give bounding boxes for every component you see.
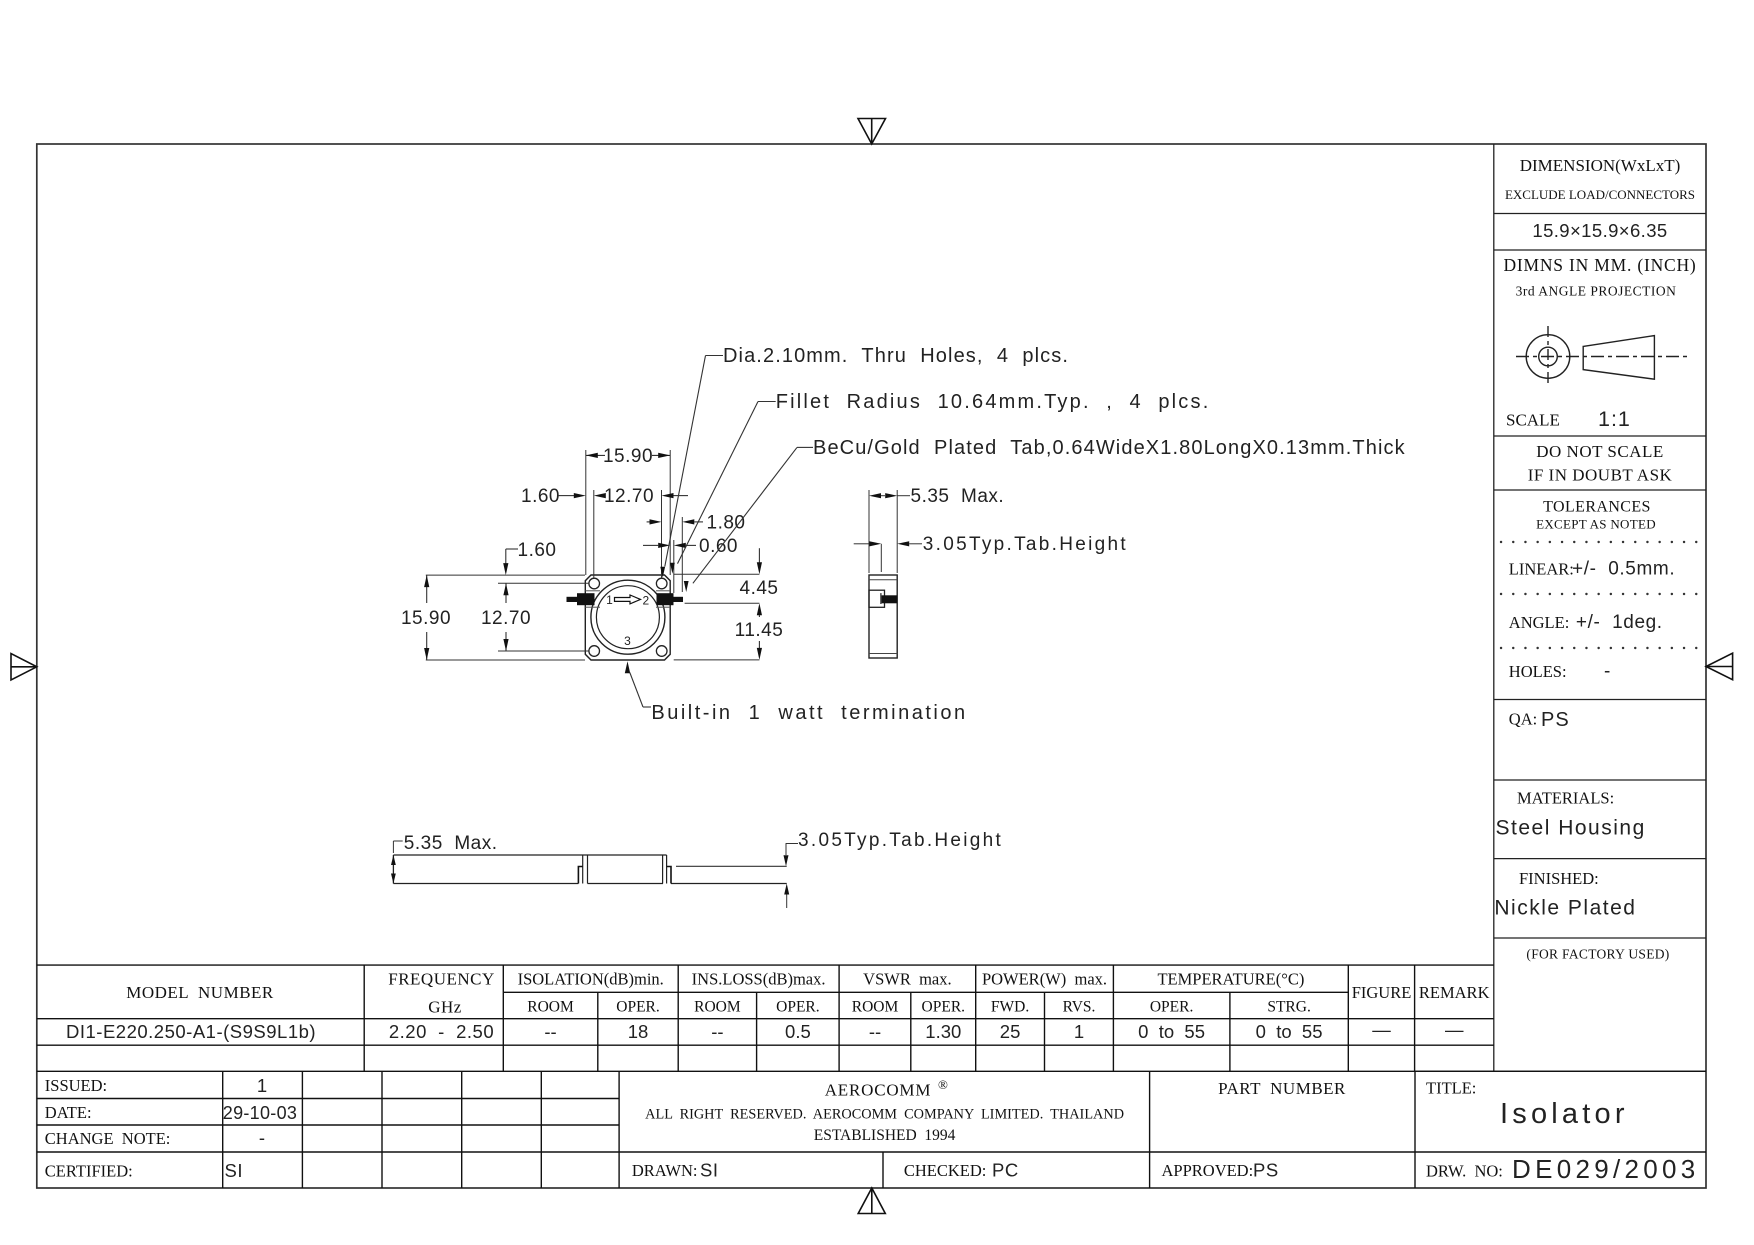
isolator body front view (chamfered square) bbox=[585, 575, 670, 660]
svg-text:DIMENSION(WxLxT): DIMENSION(WxLxT) bbox=[1520, 156, 1681, 175]
right centering mark bbox=[1706, 653, 1733, 680]
top centering mark bbox=[858, 119, 886, 145]
svg-text:12.70: 12.70 bbox=[604, 486, 654, 507]
leader: fillet radius note bbox=[758, 401, 776, 403]
svg-text:--: -- bbox=[711, 1021, 723, 1042]
svg-text:29-10-03: 29-10-03 bbox=[223, 1103, 297, 1123]
svg-text:1: 1 bbox=[606, 593, 613, 607]
dimension 0.60 (tab offset) bbox=[643, 544, 658, 546]
port flow arrow 1 to 2 bbox=[615, 595, 641, 604]
svg-text:3: 3 bbox=[624, 634, 631, 648]
svg-text:2.20 - 2.50: 2.20 - 2.50 bbox=[389, 1021, 494, 1042]
svg-text:®: ® bbox=[938, 1077, 948, 1092]
svg-text:REMARK: REMARK bbox=[1419, 983, 1490, 1002]
svg-text:DATE:: DATE: bbox=[45, 1103, 92, 1122]
svg-text:CHECKED:: CHECKED: bbox=[904, 1161, 987, 1180]
svg-text:RVS.: RVS. bbox=[1063, 999, 1096, 1016]
svg-text:ISOLATION(dB)min.: ISOLATION(dB)min. bbox=[518, 970, 664, 989]
bottom view tab line right bbox=[676, 865, 787, 867]
svg-text:MATERIALS:: MATERIALS: bbox=[1517, 789, 1614, 808]
svg-text:ROOM: ROOM bbox=[852, 999, 899, 1016]
svg-text:BeCu/Gold Plated Tab,0.64Wid: BeCu/Gold Plated Tab,0.64WideX1.80LongX0… bbox=[813, 437, 1406, 459]
svg-text:PS: PS bbox=[1253, 1160, 1279, 1181]
svg-text:1.60: 1.60 bbox=[518, 540, 557, 561]
side view body bbox=[869, 575, 897, 658]
left BeCu tab (black) bbox=[577, 593, 595, 605]
svg-text:FWD.: FWD. bbox=[991, 999, 1029, 1016]
svg-text:TITLE:: TITLE: bbox=[1426, 1079, 1476, 1098]
svg-text:--: -- bbox=[869, 1021, 881, 1042]
svg-text:0.60: 0.60 bbox=[699, 536, 738, 557]
svg-text:5.35 Max.: 5.35 Max. bbox=[404, 833, 498, 854]
svg-text:0 to 55: 0 to 55 bbox=[1256, 1021, 1323, 1042]
circulator inner circle bbox=[596, 586, 659, 649]
svg-text:12.70: 12.70 bbox=[481, 608, 531, 629]
mounting hole bottom-left bbox=[589, 646, 600, 657]
svg-text:11.45: 11.45 bbox=[735, 620, 784, 641]
svg-text:ISSUED:: ISSUED: bbox=[45, 1076, 107, 1095]
svg-text:Nickle Plated: Nickle Plated bbox=[1494, 897, 1636, 920]
dimension 15.90 (left height) bbox=[426, 575, 428, 603]
svg-text:FREQUENCY: FREQUENCY bbox=[388, 970, 495, 989]
svg-text:4.45: 4.45 bbox=[740, 578, 779, 599]
svg-text:3rd ANGLE PROJECTION: 3rd ANGLE PROJECTION bbox=[1516, 284, 1677, 299]
svg-text:INS.LOSS(dB)max.: INS.LOSS(dB)max. bbox=[692, 970, 826, 989]
leader: thru holes note bbox=[706, 355, 724, 357]
svg-text:25: 25 bbox=[1000, 1021, 1021, 1042]
svg-text:1.60: 1.60 bbox=[521, 486, 560, 507]
mounting hole top-right bbox=[656, 578, 667, 589]
svg-text:PC: PC bbox=[992, 1160, 1019, 1181]
svg-text:FIGURE: FIGURE bbox=[1352, 983, 1412, 1002]
svg-text:ALL RIGHT RESERVED. AEROCOM: ALL RIGHT RESERVED. AEROCOMM COMPANY LIM… bbox=[645, 1107, 1124, 1123]
svg-text:15.90: 15.90 bbox=[401, 608, 451, 629]
bottom view left edge bbox=[392, 855, 394, 884]
projection symbol bbox=[1516, 326, 1688, 387]
svg-text:GHz: GHz bbox=[428, 998, 462, 1017]
tab slot lines left bbox=[585, 590, 600, 592]
svg-text:ROOM: ROOM bbox=[694, 999, 741, 1016]
svg-text:DO NOT SCALE: DO NOT SCALE bbox=[1536, 442, 1664, 461]
side view 3.05 tab height dim bbox=[854, 543, 870, 545]
svg-text:LINEAR:: LINEAR: bbox=[1509, 560, 1574, 579]
dimension 1.80 (tab length) bbox=[647, 521, 650, 523]
svg-text:Fillet Radius 10.64mm.Typ.: Fillet Radius 10.64mm.Typ. , 4 plcs. bbox=[776, 391, 1211, 413]
svg-text:ESTABLISHED 1994: ESTABLISHED 1994 bbox=[814, 1127, 956, 1144]
svg-text:DRW. NO:: DRW. NO: bbox=[1426, 1162, 1503, 1181]
svg-text:ROOM: ROOM bbox=[527, 999, 574, 1016]
dimension 12.70 (left hole spacing) bbox=[505, 583, 507, 603]
border frame bbox=[37, 144, 1706, 1188]
svg-text:1: 1 bbox=[1074, 1021, 1084, 1042]
bottom view top edge bbox=[393, 854, 666, 856]
side view tab black bbox=[882, 595, 898, 603]
bottom view 3.05 dim bbox=[786, 843, 798, 845]
svg-text:15.9×15.9×6.35: 15.9×15.9×6.35 bbox=[1532, 220, 1667, 241]
right BeCu tab (black) bbox=[657, 593, 674, 605]
spec table grid bbox=[37, 965, 1706, 1071]
svg-text:DRAWN:: DRAWN: bbox=[632, 1161, 698, 1180]
svg-text:OPER.: OPER. bbox=[776, 999, 820, 1016]
svg-text:Steel Housing: Steel Housing bbox=[1496, 817, 1646, 840]
svg-text:CHANGE NOTE:: CHANGE NOTE: bbox=[45, 1129, 171, 1148]
svg-text:0.5: 0.5 bbox=[785, 1021, 811, 1042]
svg-text:3.05Typ.Tab.Height: 3.05Typ.Tab.Height bbox=[923, 534, 1128, 555]
svg-text:APPROVED:: APPROVED: bbox=[1162, 1161, 1254, 1180]
svg-text:QA:: QA: bbox=[1509, 710, 1537, 729]
svg-text:POWER(W) max.: POWER(W) max. bbox=[982, 970, 1107, 989]
mounting hole top-left bbox=[589, 578, 600, 589]
svg-text:TEMPERATURE(°C): TEMPERATURE(°C) bbox=[1157, 970, 1304, 989]
svg-text:-: - bbox=[1604, 661, 1610, 682]
tab slot lines right bbox=[656, 590, 670, 592]
svg-text:EXCLUDE LOAD/CONNECTORS: EXCLUDE LOAD/CONNECTORS bbox=[1505, 187, 1695, 202]
leader: BeCu tab note bbox=[797, 446, 813, 448]
svg-text:DE029/2003: DE029/2003 bbox=[1512, 1154, 1700, 1184]
svg-text:—: — bbox=[1445, 1019, 1464, 1040]
svg-text:Built-in 1 watt termination: Built-in 1 watt termination bbox=[651, 702, 967, 724]
svg-text:1:1: 1:1 bbox=[1598, 407, 1631, 431]
svg-text:DI1-E220.250-A1-(S9S9L1b): DI1-E220.250-A1-(S9S9L1b) bbox=[66, 1021, 316, 1042]
bottom title block grid bbox=[37, 1071, 1706, 1188]
svg-text:Isolator: Isolator bbox=[1500, 1098, 1629, 1130]
svg-text:MODEL NUMBER: MODEL NUMBER bbox=[126, 983, 274, 1002]
svg-text:0 to 55: 0 to 55 bbox=[1138, 1021, 1205, 1042]
svg-text:STRG.: STRG. bbox=[1267, 999, 1311, 1016]
svg-text:SI: SI bbox=[700, 1160, 718, 1181]
svg-text:SI: SI bbox=[225, 1160, 243, 1181]
svg-text:PS: PS bbox=[1541, 709, 1570, 731]
svg-text:IF IN DOUBT ASK: IF IN DOUBT ASK bbox=[1528, 466, 1673, 485]
svg-text:DIMNS IN MM. (INCH): DIMNS IN MM. (INCH) bbox=[1503, 255, 1696, 275]
svg-text:HOLES:: HOLES: bbox=[1509, 662, 1567, 681]
svg-text:TOLERANCES: TOLERANCES bbox=[1543, 499, 1651, 516]
svg-text:ANGLE:: ANGLE: bbox=[1509, 613, 1570, 632]
mounting hole bottom-right bbox=[656, 646, 667, 657]
svg-text:CERTIFIED:: CERTIFIED: bbox=[45, 1162, 133, 1181]
bottom view left tab hook bbox=[578, 867, 582, 884]
svg-text:+/- 0.5mm.: +/- 0.5mm. bbox=[1572, 559, 1675, 580]
svg-text:—: — bbox=[1372, 1019, 1391, 1040]
side view tab outline bbox=[869, 590, 885, 607]
svg-text:1.30: 1.30 bbox=[925, 1021, 961, 1042]
bottom view bottom edges bbox=[393, 883, 578, 885]
svg-text:2: 2 bbox=[642, 594, 649, 608]
svg-text:-: - bbox=[259, 1127, 265, 1148]
circulator outer circle bbox=[591, 580, 665, 654]
svg-text:15.90: 15.90 bbox=[603, 446, 653, 467]
svg-text:SCALE: SCALE bbox=[1506, 411, 1560, 430]
svg-text:AEROCOMM: AEROCOMM bbox=[825, 1081, 932, 1100]
svg-text:1: 1 bbox=[257, 1075, 267, 1096]
bottom view 5.35 Max dim bbox=[392, 841, 394, 853]
svg-text:5.35 Max.: 5.35 Max. bbox=[911, 486, 1005, 507]
dimension 15.90 (top width) bbox=[586, 454, 605, 456]
bottom centering mark bbox=[858, 1188, 885, 1214]
extension lines around front view bbox=[585, 450, 587, 575]
leader: built-in termination bbox=[625, 661, 630, 673]
svg-text:+/- 1deg.: +/- 1deg. bbox=[1570, 612, 1663, 633]
bottom view right tab hook bbox=[667, 867, 671, 884]
svg-text:(FOR FACTORY USED): (FOR FACTORY USED) bbox=[1526, 947, 1669, 962]
right info column grid bbox=[1415, 144, 1706, 1071]
svg-text:OPER.: OPER. bbox=[922, 999, 966, 1016]
svg-text:18: 18 bbox=[628, 1021, 649, 1042]
svg-text:OPER.: OPER. bbox=[1150, 999, 1194, 1016]
svg-text:OPER.: OPER. bbox=[616, 999, 660, 1016]
svg-text:PART NUMBER: PART NUMBER bbox=[1218, 1079, 1346, 1098]
dotted separators bbox=[1501, 541, 1697, 543]
bottom view center double walls bbox=[582, 855, 584, 884]
svg-text:VSWR max.: VSWR max. bbox=[863, 970, 951, 989]
svg-text:Dia.2.10mm. Thru Holes, 4: Dia.2.10mm. Thru Holes, 4 plcs. bbox=[723, 345, 1069, 367]
dimension 4.45 (tab center from top) bbox=[758, 548, 760, 562]
svg-text:--: -- bbox=[544, 1021, 556, 1042]
svg-text:EXCEPT AS NOTED: EXCEPT AS NOTED bbox=[1536, 517, 1656, 532]
svg-text:FINISHED:: FINISHED: bbox=[1519, 869, 1599, 888]
side view 5.35 dim bbox=[868, 490, 870, 573]
dimension 11.45 bbox=[757, 603, 762, 615]
svg-text:3.05Typ.Tab.Height: 3.05Typ.Tab.Height bbox=[798, 830, 1003, 851]
left centering mark bbox=[11, 654, 37, 681]
